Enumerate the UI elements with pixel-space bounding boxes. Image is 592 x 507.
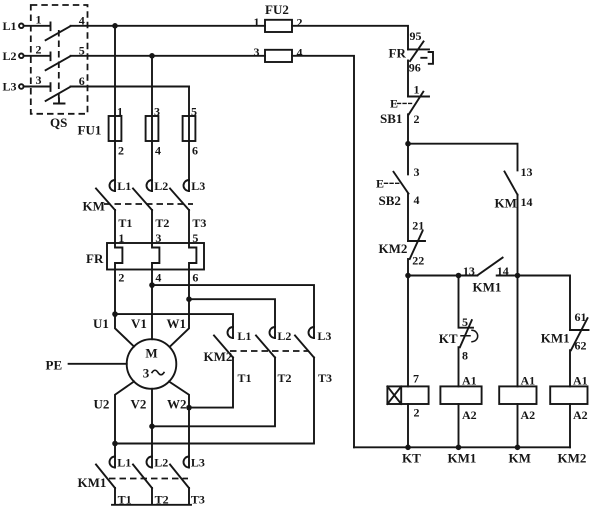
node L2 (phase input terminal) xyxy=(3,49,24,63)
svg-text:7: 7 xyxy=(413,372,419,386)
wire node B row to KM1 NC branch xyxy=(518,276,571,331)
junction KM1 on bus xyxy=(456,445,462,451)
node L3 (phase input terminal) xyxy=(3,80,24,94)
wire L1 row from QS to FU2 xyxy=(71,25,265,27)
wire node U1 to KM2 contact 1 xyxy=(115,314,233,338)
svg-text:V2: V2 xyxy=(131,397,147,412)
svg-text:KM1: KM1 xyxy=(473,280,502,295)
fuse FU2 (control circuit fuses) xyxy=(254,2,303,62)
svg-text:L1: L1 xyxy=(237,329,251,343)
svg-text:2: 2 xyxy=(36,43,42,57)
wire node V1 to KM2 contact 3 xyxy=(152,285,314,338)
svg-text:3: 3 xyxy=(414,165,420,179)
junction node C (KT branch top) xyxy=(456,273,462,279)
pushbutton SB1 stop (NC, 1-2) xyxy=(380,83,429,127)
svg-text:96: 96 xyxy=(409,61,421,75)
svg-text:T3: T3 xyxy=(191,493,205,507)
svg-text:KM2: KM2 xyxy=(558,451,587,466)
wire phase column 1 down through FU1 to KM contact xyxy=(114,26,116,191)
wire KT-8 to KM1 coil xyxy=(458,347,460,386)
wire KM1-62 to KM2 coil xyxy=(569,350,571,386)
svg-text:L3: L3 xyxy=(191,456,205,470)
svg-text:22: 22 xyxy=(412,254,424,268)
wire motor W2 lead down xyxy=(169,382,189,468)
coil KM2 (A1-A2) xyxy=(550,374,587,466)
svg-text:KM1: KM1 xyxy=(541,331,570,346)
wire FR-2 down to motor U1 lead xyxy=(115,270,134,347)
disconnect switch QS (3-pole knife switch in dashed box) xyxy=(31,5,88,130)
wire motor U2 lead down xyxy=(115,382,134,468)
contactor KM main contacts (L1/L2/L3 - T1/T2/T3) xyxy=(83,179,207,230)
svg-text:FR: FR xyxy=(389,46,407,61)
svg-text:3: 3 xyxy=(143,366,150,381)
svg-text:62: 62 xyxy=(575,339,587,353)
svg-text:SB2: SB2 xyxy=(379,193,401,208)
junction V2 xyxy=(149,424,155,430)
wire KM2 T1 to node W2 xyxy=(189,358,233,408)
wire KM T1 to FR xyxy=(114,210,116,243)
contactor KM1 NO aux contact (13-14, horizontal) xyxy=(459,258,518,295)
svg-text:U2: U2 xyxy=(94,397,110,412)
thermal relay FR NC contact (95-96) xyxy=(389,29,434,75)
svg-text:KM: KM xyxy=(495,196,517,211)
svg-text:KM1: KM1 xyxy=(78,475,107,490)
wire FR-4 down to motor V1 lead xyxy=(151,270,153,340)
node L1 (phase input terminal) xyxy=(3,19,24,33)
timer coil KT (terminals 7-2) xyxy=(387,372,428,466)
QS mechanical linkage (dashed) xyxy=(58,30,60,99)
svg-text:L2: L2 xyxy=(277,329,291,343)
wire node D to KM coil xyxy=(517,276,519,387)
svg-text:T2: T2 xyxy=(155,216,169,230)
svg-text:1: 1 xyxy=(36,13,42,27)
svg-text:T1: T1 xyxy=(118,216,132,230)
svg-text:8: 8 xyxy=(462,349,468,363)
timer KT NC delayed contact (5-8) xyxy=(439,276,478,363)
junction phase column 1 on L1 row xyxy=(112,23,118,29)
wire KM2 T3 to node U2 xyxy=(115,358,314,444)
pushbutton SB2 start (NO, 3-4) xyxy=(376,165,420,208)
wire FU2-2 to control line xyxy=(292,26,408,50)
fuse FU1 (three-phase main fuses) xyxy=(78,105,199,158)
svg-text:U1: U1 xyxy=(93,316,109,331)
svg-text:14: 14 xyxy=(497,264,509,278)
contactor KM2 NC interlock contact (21-22) xyxy=(379,219,426,268)
svg-text:KT: KT xyxy=(402,451,421,466)
wire SB1-2 down to node A xyxy=(407,114,409,174)
junction phase column 2 on L2 row xyxy=(149,53,155,59)
junction node A (below SB1) xyxy=(405,141,411,147)
junction node W1 branch xyxy=(186,296,192,302)
QS pole 3 (terminals 3-6) xyxy=(24,73,85,101)
svg-text:4: 4 xyxy=(155,271,161,285)
svg-text:4: 4 xyxy=(155,144,161,158)
contactor KM2 delta contacts (L1/L2/L3 - T1/T2/T3) xyxy=(204,327,333,385)
svg-text:6: 6 xyxy=(192,144,198,158)
svg-text:4: 4 xyxy=(414,193,420,207)
QS dashed enclosure xyxy=(31,5,88,114)
wire KM2 coil to bottom bus xyxy=(569,404,571,447)
wire phase column 3 down through FU1 to KM contact xyxy=(188,87,190,192)
svg-text:KM1: KM1 xyxy=(448,451,477,466)
svg-text:T3: T3 xyxy=(192,216,206,230)
QS pole 2 (terminals 2-5) xyxy=(24,43,85,71)
wire KM1 coil to bottom bus xyxy=(458,404,460,447)
wire node B to KM1 aux contact xyxy=(408,275,459,277)
wire KM coil to bottom bus xyxy=(517,404,519,447)
svg-text:3: 3 xyxy=(254,45,260,59)
svg-text:M: M xyxy=(145,346,157,361)
svg-text:FU2: FU2 xyxy=(265,2,289,17)
junction node V1 branch xyxy=(149,282,155,288)
svg-text:L3: L3 xyxy=(3,80,17,94)
wire KM2 T2 to node V2 xyxy=(152,358,275,427)
wire star point bar joining KM1 T1 T2 T3 xyxy=(112,488,191,505)
wire SB2-4 to KM2 NC contact xyxy=(407,194,409,241)
wire node W1 to KM2 contact 2 xyxy=(189,299,275,338)
svg-text:PE: PE xyxy=(46,358,63,373)
contactor KM1 NC interlock contact (61-62) xyxy=(541,310,589,353)
svg-text:SB1: SB1 xyxy=(380,111,402,126)
svg-text:A1: A1 xyxy=(573,374,588,388)
svg-text:5: 5 xyxy=(191,105,197,119)
svg-text:14: 14 xyxy=(521,195,533,209)
svg-text:KM2: KM2 xyxy=(379,241,408,256)
svg-text:W2: W2 xyxy=(167,397,187,412)
svg-text:A1: A1 xyxy=(521,374,536,388)
svg-text:L3: L3 xyxy=(317,329,331,343)
junction W2 xyxy=(186,405,192,411)
junction node U1 branch xyxy=(112,311,118,317)
svg-text:L1: L1 xyxy=(117,179,131,193)
junction node B xyxy=(405,273,411,279)
svg-text:4: 4 xyxy=(297,46,303,60)
svg-text:1: 1 xyxy=(117,105,123,119)
svg-text:L3: L3 xyxy=(191,179,205,193)
wire L3 row from QS to phase column 3 xyxy=(71,86,189,88)
svg-text:T2: T2 xyxy=(278,371,292,385)
wire KM T2 to FR xyxy=(151,210,153,243)
contactor KM NO aux contact (13-14, self-hold) xyxy=(495,165,533,211)
PE ground wire xyxy=(46,358,127,373)
wire KM2-22 down to node B xyxy=(407,259,409,276)
wire FR-96 to SB1 xyxy=(407,61,409,97)
svg-text:2: 2 xyxy=(297,16,303,30)
wire bottom control bus xyxy=(354,446,570,448)
svg-text:KT: KT xyxy=(439,331,458,346)
wire node A to KM auxiliary branch xyxy=(408,144,518,171)
wire phase column 2 down through FU1 to KM contact xyxy=(151,56,153,191)
svg-text:FU1: FU1 xyxy=(78,123,102,138)
svg-text:3: 3 xyxy=(154,105,160,119)
svg-text:W1: W1 xyxy=(167,316,187,331)
svg-text:QS: QS xyxy=(50,115,67,130)
QS handle symbol xyxy=(54,99,65,104)
svg-text:A1: A1 xyxy=(462,374,477,388)
svg-text:E: E xyxy=(376,177,384,191)
svg-text:1: 1 xyxy=(414,83,420,97)
thermal relay FR heater element (terminals 1..6) xyxy=(86,231,204,285)
svg-text:KM: KM xyxy=(509,451,531,466)
svg-text:2: 2 xyxy=(118,271,124,285)
svg-text:6: 6 xyxy=(192,271,198,285)
wire KM T3 to FR xyxy=(188,210,190,243)
junction node D (KM coil top) xyxy=(515,273,521,279)
junction KT on bus xyxy=(405,445,411,451)
motor M 3~ xyxy=(127,339,177,389)
wire node B to KT coil xyxy=(407,276,409,387)
svg-text:A2: A2 xyxy=(462,408,477,422)
svg-text:1: 1 xyxy=(254,15,260,29)
svg-text:KM: KM xyxy=(83,199,105,214)
svg-text:13: 13 xyxy=(521,165,533,179)
svg-text:V1: V1 xyxy=(131,316,147,331)
svg-text:L2: L2 xyxy=(154,179,168,193)
svg-text:A2: A2 xyxy=(521,408,536,422)
junction U2 xyxy=(112,441,118,447)
svg-text:L2: L2 xyxy=(154,456,168,470)
wire motor V2 lead down xyxy=(151,389,153,468)
coil KM1 (A1-A2) xyxy=(440,374,481,466)
svg-text:2: 2 xyxy=(118,144,124,158)
svg-text:A2: A2 xyxy=(573,408,588,422)
wire FU2-4 to control return line xyxy=(292,56,354,448)
coil KM (A1-A2) xyxy=(499,374,536,466)
wire L2 row from QS to FU2 xyxy=(71,55,265,57)
svg-text:T3: T3 xyxy=(318,371,332,385)
svg-text:FR: FR xyxy=(86,251,104,266)
svg-text:T1: T1 xyxy=(238,371,252,385)
wire KT coil to bottom bus xyxy=(407,404,409,447)
contactor KM1 star contacts (L1/L2/L3 - T1/T2/T3) xyxy=(78,456,205,507)
svg-text:95: 95 xyxy=(410,29,422,43)
svg-text:2: 2 xyxy=(414,406,420,420)
svg-text:2: 2 xyxy=(414,112,420,126)
junction KM on bus xyxy=(515,445,521,451)
svg-text:3: 3 xyxy=(36,73,42,87)
wire FR-6 down to motor W1 lead xyxy=(170,270,189,347)
wire KM-14 down to node D xyxy=(517,195,519,276)
QS pole 1 (terminals 1-4) xyxy=(24,13,85,41)
svg-text:L1: L1 xyxy=(3,19,17,33)
svg-text:L1: L1 xyxy=(117,456,131,470)
svg-text:L2: L2 xyxy=(3,49,17,63)
